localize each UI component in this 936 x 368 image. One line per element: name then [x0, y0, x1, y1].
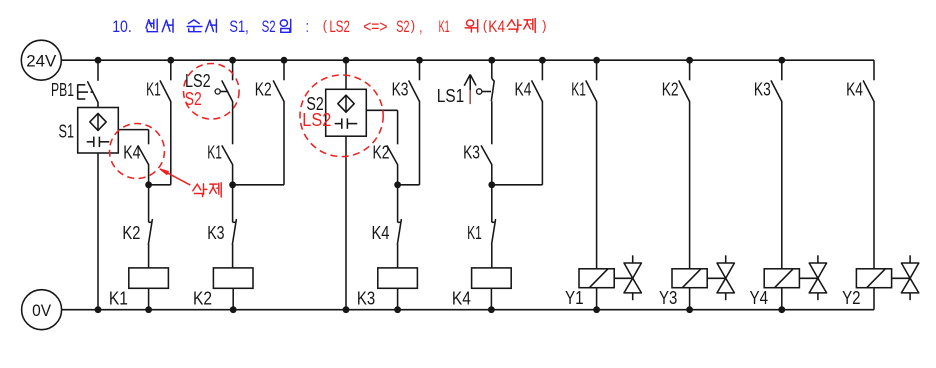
svg-text:K4: K4 [123, 143, 140, 163]
svg-text:K2: K2 [255, 80, 272, 100]
svg-text:K3: K3 [207, 223, 224, 243]
svg-text:K4: K4 [452, 289, 471, 309]
svg-text:Y1: Y1 [565, 288, 584, 308]
svg-text:K2: K2 [122, 223, 140, 243]
svg-text:K1: K1 [146, 80, 161, 100]
svg-text:S1,: S1, [229, 17, 248, 36]
svg-text:PB1: PB1 [51, 80, 74, 100]
svg-text:K2: K2 [193, 289, 212, 309]
svg-text:K2: K2 [373, 143, 390, 163]
svg-text:Y2: Y2 [842, 288, 861, 308]
svg-text:K4: K4 [488, 17, 505, 36]
svg-text:K1: K1 [571, 80, 586, 100]
svg-text:0V: 0V [32, 301, 52, 320]
svg-text:K3: K3 [463, 143, 480, 163]
svg-text:(: ( [483, 17, 487, 33]
svg-text:K1: K1 [439, 17, 450, 36]
svg-text:Y3: Y3 [659, 288, 677, 308]
svg-text:K4: K4 [372, 223, 390, 243]
svg-text:K1: K1 [109, 289, 128, 309]
svg-text:(: ( [323, 17, 327, 33]
svg-text:S2: S2 [185, 89, 202, 109]
svg-text:10.: 10. [112, 17, 132, 36]
svg-text:Y4: Y4 [750, 288, 769, 308]
svg-text:K1: K1 [207, 143, 222, 163]
svg-text:24V: 24V [26, 51, 57, 70]
svg-text:S1: S1 [59, 121, 75, 141]
svg-text:<=>: <=> [363, 17, 387, 36]
svg-text:,: , [419, 17, 422, 36]
svg-text:LS1: LS1 [437, 86, 464, 106]
svg-text:LS2: LS2 [329, 17, 350, 36]
svg-text:LS2: LS2 [302, 110, 331, 130]
svg-text::: : [306, 17, 309, 36]
svg-text:K1: K1 [467, 223, 482, 243]
svg-text:K2: K2 [662, 80, 679, 100]
svg-text:K3: K3 [392, 80, 409, 100]
svg-text:): ) [411, 17, 415, 33]
svg-text:K3: K3 [357, 289, 375, 309]
svg-text:K3: K3 [754, 80, 771, 100]
svg-text:S2: S2 [262, 17, 276, 36]
svg-text:): ) [542, 17, 546, 33]
svg-text:K4: K4 [515, 80, 532, 100]
svg-text:S2: S2 [396, 17, 409, 36]
svg-text:K4: K4 [846, 80, 863, 100]
